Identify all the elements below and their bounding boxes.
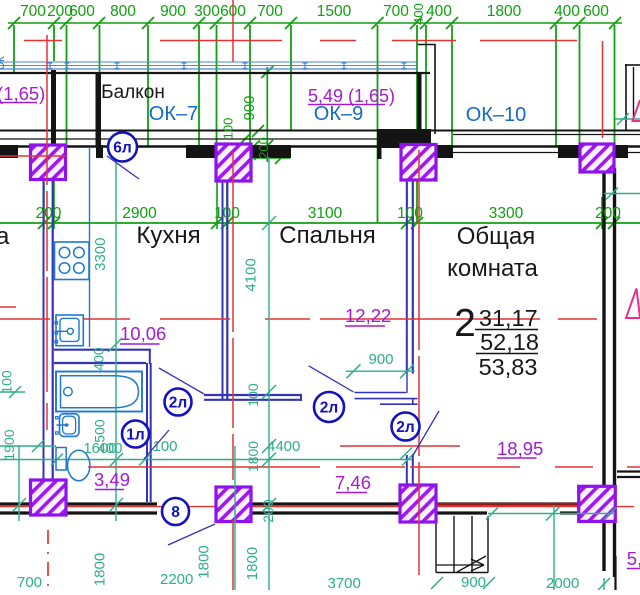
svg-text:комната: комната bbox=[447, 255, 538, 282]
svg-text:600: 600 bbox=[583, 3, 609, 20]
svg-text:1800: 1800 bbox=[487, 3, 522, 20]
svg-text:2л: 2л bbox=[396, 419, 414, 436]
teal vertical x554 (stairs) bbox=[553, 505, 555, 590]
red axis vertical x47 bbox=[46, 35, 48, 392]
teal bottom right tick bbox=[603, 578, 605, 590]
svg-text:ОК–9: ОК–9 bbox=[314, 103, 363, 125]
svg-text:1500: 1500 bbox=[317, 3, 352, 20]
svg-text:1800: 1800 bbox=[245, 441, 261, 472]
svg-text:7,46: 7,46 bbox=[335, 472, 371, 493]
bottom wall lower line bbox=[0, 511, 157, 514]
leader bedroom 2l bbox=[309, 366, 354, 392]
balcony divider wall left bbox=[51, 70, 56, 146]
svg-text:2000: 2000 bbox=[546, 575, 579, 590]
top right neighbour walls bbox=[625, 64, 627, 131]
window inner line right (OK-10) bbox=[453, 152, 640, 154]
red axis vertical x602 top bbox=[602, 41, 604, 138]
red line through column 1 y156 bbox=[0, 155, 66, 157]
svg-text:3700: 3700 bbox=[328, 575, 361, 590]
svg-text:200: 200 bbox=[260, 499, 276, 523]
red axis horizontal y467 bbox=[88, 466, 320, 468]
column K3 top-mid-right (hatched) bbox=[401, 145, 436, 181]
balcony railing posts bbox=[48, 62, 53, 71]
svg-text:2л: 2л bbox=[320, 400, 338, 417]
red axis through bottom wall bbox=[0, 506, 634, 508]
svg-text:12,22: 12,22 bbox=[345, 305, 391, 326]
kitchen sink bbox=[56, 315, 83, 346]
balcony 900 dimension (vertical green, right of balcony) bbox=[266, 67, 268, 162]
svg-text:400: 400 bbox=[426, 3, 452, 20]
stair direction arrow bbox=[436, 564, 484, 566]
svg-text:18,95: 18,95 bbox=[497, 438, 543, 459]
balcony right end wall bbox=[417, 73, 422, 146]
wall piece to entrance column bbox=[406, 455, 408, 486]
column K8 bottom-right (hatched) bbox=[579, 486, 616, 521]
svg-text:100: 100 bbox=[0, 370, 15, 394]
svg-text:ОК: ОК bbox=[0, 56, 7, 70]
svg-text:400: 400 bbox=[554, 3, 580, 20]
svg-text:ОК–7: ОК–7 bbox=[149, 103, 198, 125]
svg-text:Кухня: Кухня bbox=[136, 222, 200, 249]
teal horizontal left y392 bbox=[0, 391, 25, 393]
svg-text:2: 2 bbox=[454, 302, 476, 345]
svg-text:а: а bbox=[0, 223, 10, 250]
column K2 top-mid-left (hatched) bbox=[216, 144, 251, 181]
svg-text:53,83: 53,83 bbox=[479, 354, 538, 380]
leader to 6l bbox=[107, 156, 139, 179]
svg-text:700: 700 bbox=[257, 3, 283, 20]
svg-text:10,06: 10,06 bbox=[120, 323, 166, 344]
svg-text:4400: 4400 bbox=[267, 438, 300, 455]
thick wall chunk at balcony right / between OK-9 and OK-10 bbox=[377, 129, 431, 148]
window glass line 1 (right part) bbox=[453, 134, 640, 136]
green extension verticals from top dims bbox=[13, 25, 15, 73]
dark red overlay on right bottom wall bbox=[436, 503, 615, 505]
pink triangle top right bbox=[633, 100, 640, 121]
teal horizontal y459.5 (hall dim) bbox=[0, 459, 412, 461]
svg-text:100: 100 bbox=[153, 438, 178, 455]
svg-text:6л: 6л bbox=[113, 140, 131, 157]
wall piece below right column bbox=[614, 556, 616, 590]
svg-text:1л: 1л bbox=[126, 427, 144, 444]
circle label 2л bbox=[165, 389, 192, 416]
teal door dim 900 (bedroom) bbox=[346, 370, 415, 372]
top dimension ticks bbox=[8, 17, 20, 29]
leader living 2l bbox=[412, 411, 439, 457]
column K1 top-left (hatched) bbox=[31, 145, 66, 180]
leader kitchen 2l bbox=[159, 368, 204, 394]
svg-text:200: 200 bbox=[256, 137, 271, 159]
column K4 top-right (hatched) bbox=[580, 144, 614, 172]
teal vertical dim line x116 (bath) bbox=[115, 157, 117, 521]
svg-text:31,17: 31,17 bbox=[479, 305, 538, 331]
bedroom door leaf bbox=[355, 392, 407, 394]
svg-text:100: 100 bbox=[397, 205, 423, 222]
row2 extension lines bbox=[43, 182, 45, 229]
svg-text:2л: 2л bbox=[169, 395, 187, 412]
circle label 2л bbox=[314, 392, 344, 422]
svg-text:3300: 3300 bbox=[92, 238, 109, 271]
hallway top wall bbox=[204, 394, 302, 396]
svg-text:3300: 3300 bbox=[489, 205, 524, 222]
window sill line bbox=[0, 145, 640, 147]
svg-text:600: 600 bbox=[69, 3, 95, 20]
svg-text:1800: 1800 bbox=[244, 547, 261, 580]
svg-text:700: 700 bbox=[17, 574, 42, 590]
right outer wall (double black) bbox=[602, 168, 605, 571]
window glass line 2 (balcony side) bbox=[0, 138, 417, 140]
kitchen/left interior wall bbox=[43, 180, 45, 481]
teal right y193 bbox=[604, 193, 640, 195]
red stub left edge y307 bbox=[0, 306, 16, 308]
leader 1l bbox=[144, 430, 169, 459]
wall piers between windows bbox=[0, 145, 18, 158]
teal vertical x269 bbox=[268, 157, 270, 590]
balcony railing lines bbox=[0, 61, 418, 63]
stove bbox=[55, 242, 90, 280]
svg-text:200: 200 bbox=[595, 205, 621, 222]
circle label 8 bbox=[162, 498, 189, 525]
balcony divider wall mid bbox=[96, 72, 102, 146]
row2 ticks bbox=[38, 217, 50, 229]
svg-text:1800: 1800 bbox=[196, 545, 213, 578]
svg-text:100: 100 bbox=[214, 205, 240, 222]
svg-text:600: 600 bbox=[220, 3, 246, 20]
teal stair dim ticks bottom bbox=[431, 577, 443, 589]
svg-text:5,49 (1,65): 5,49 (1,65) bbox=[308, 86, 395, 106]
red axis horizontal y446 bbox=[340, 445, 460, 447]
svg-text:200: 200 bbox=[36, 205, 62, 222]
svg-text:100: 100 bbox=[221, 118, 236, 140]
kitchen/bedroom wall bbox=[222, 181, 224, 400]
svg-text:300: 300 bbox=[194, 3, 220, 20]
svg-text:2900: 2900 bbox=[122, 205, 157, 222]
teal vertical x235 bbox=[234, 446, 236, 590]
svg-text:700: 700 bbox=[383, 3, 409, 20]
stairwell treads bbox=[435, 516, 437, 573]
top dimension line bbox=[8, 22, 622, 24]
svg-text:900: 900 bbox=[461, 574, 486, 590]
bathtub bbox=[56, 372, 142, 412]
svg-text:ОК–10: ОК–10 bbox=[466, 104, 527, 126]
svg-text:900: 900 bbox=[368, 351, 393, 368]
svg-text:Балкон: Балкон bbox=[101, 82, 165, 103]
svg-text:(1,65): (1,65) bbox=[0, 83, 45, 104]
svg-text:800: 800 bbox=[110, 3, 136, 20]
svg-text:5,49: 5,49 bbox=[627, 548, 640, 569]
teal vertical x19 bbox=[18, 446, 20, 521]
pink triangle right bbox=[626, 289, 640, 319]
svg-text:Общая: Общая bbox=[457, 223, 536, 250]
teal line y513 (stairwell) bbox=[488, 513, 615, 515]
outer wall face line bbox=[0, 130, 640, 132]
svg-text:400: 400 bbox=[91, 347, 107, 371]
bathroom top wall bbox=[54, 349, 151, 351]
svg-text:700: 700 bbox=[20, 3, 46, 20]
bottom wall upper line bbox=[0, 502, 31, 505]
svg-text:3,49: 3,49 bbox=[94, 469, 130, 490]
teal bath 400 tick bbox=[108, 338, 122, 352]
leader 8 bbox=[168, 524, 215, 545]
svg-text:900: 900 bbox=[160, 3, 186, 20]
bottom right neighbour double wall lines bbox=[617, 470, 640, 472]
balcony slab edge bbox=[0, 72, 430, 74]
red axis vertical x233 bbox=[232, 0, 234, 62]
svg-text:400: 400 bbox=[97, 440, 122, 457]
red axis line horizontal top y40 bbox=[24, 40, 62, 42]
bathroom right wall bbox=[146, 363, 148, 502]
circle label 6л bbox=[108, 133, 137, 162]
svg-text:900: 900 bbox=[241, 95, 258, 120]
toilet bbox=[56, 448, 66, 471]
bedroom right wall bbox=[406, 181, 408, 374]
bottom wall piece left of right column bbox=[560, 511, 580, 514]
circle label 2л bbox=[392, 413, 420, 441]
column K7 bottom-mid-right (hatched) bbox=[400, 485, 436, 522]
red axis horizontal y319 bbox=[0, 318, 50, 320]
wall stub above balcony right bbox=[418, 44, 436, 46]
red axis vertical x419 bbox=[418, 150, 420, 575]
svg-text:4100: 4100 bbox=[243, 258, 260, 291]
svg-text:Спальня: Спальня bbox=[279, 222, 375, 249]
teal top right y119 bbox=[615, 118, 640, 120]
svg-text:1800: 1800 bbox=[92, 553, 109, 586]
teal horizontal left y446 bbox=[0, 445, 56, 447]
column K6 bottom-mid-left (hatched) bbox=[216, 487, 251, 522]
svg-text:2200: 2200 bbox=[160, 571, 193, 588]
main horizontal dimension line (row 2) bbox=[0, 222, 640, 224]
circle label 1л bbox=[122, 421, 149, 448]
svg-text:1900: 1900 bbox=[1, 429, 17, 460]
kitchen counter edge line bbox=[89, 147, 91, 347]
svg-text:3100: 3100 bbox=[308, 205, 343, 222]
column K5 bottom-left (hatched) bbox=[31, 480, 67, 515]
svg-text:8: 8 bbox=[171, 504, 180, 521]
washbasin bbox=[60, 414, 80, 437]
green tick cluster near balcony end bbox=[239, 133, 251, 145]
svg-text:400: 400 bbox=[411, 3, 426, 25]
svg-text:100: 100 bbox=[245, 383, 261, 407]
teal tick living door bbox=[400, 448, 412, 460]
svg-text:52,18: 52,18 bbox=[480, 329, 539, 355]
